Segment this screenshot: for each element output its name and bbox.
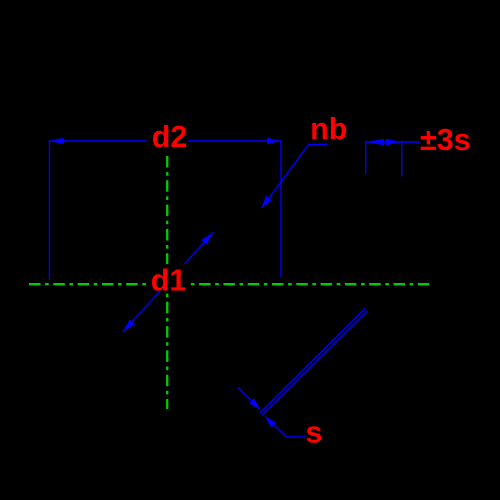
d1 arrowhead upper bbox=[201, 232, 213, 244]
plus-minus-3s arrow right bbox=[386, 139, 402, 145]
wire: nb leader bbox=[263, 144, 328, 207]
horizontal centerline bbox=[29, 283, 430, 285]
wire: d2 dimension line right segment bbox=[188, 140, 281, 142]
s arrow upper bbox=[249, 398, 261, 410]
label halo d1 bbox=[150, 264, 187, 292]
sheet edge upper line bbox=[260, 309, 365, 414]
vertical centerline bbox=[166, 156, 168, 409]
nb leader arrowhead bbox=[261, 196, 272, 209]
d1 arrowhead lower bbox=[123, 320, 135, 332]
wire: d2 left extension line bbox=[49, 140, 51, 280]
svg-text:±3s: ±3s bbox=[420, 123, 471, 157]
sheet edge lower line bbox=[262, 311, 367, 416]
plus-minus-3s arrow left bbox=[366, 139, 384, 145]
wire: plus-minus-3s dimension line bbox=[366, 141, 420, 143]
svg-text:d2: d2 bbox=[152, 120, 188, 154]
wire: s leader bbox=[273, 424, 305, 437]
wire: d1 diameter leader bbox=[123, 232, 214, 332]
wire: d2 right extension line bbox=[280, 141, 282, 277]
wire: s upper approach line bbox=[238, 388, 251, 401]
d2 arrow right bbox=[267, 138, 281, 145]
s arrow lower bbox=[264, 416, 276, 428]
wire: plus-minus-3s left extension line bbox=[365, 141, 367, 174]
wire: d2 dimension line left segment bbox=[50, 140, 147, 142]
d2 arrow left bbox=[50, 138, 64, 145]
svg-text:d1: d1 bbox=[151, 264, 187, 298]
wire: plus-minus-3s right extension line bbox=[401, 141, 403, 177]
svg-text:nb: nb bbox=[310, 112, 347, 146]
svg-text:s: s bbox=[306, 416, 323, 450]
